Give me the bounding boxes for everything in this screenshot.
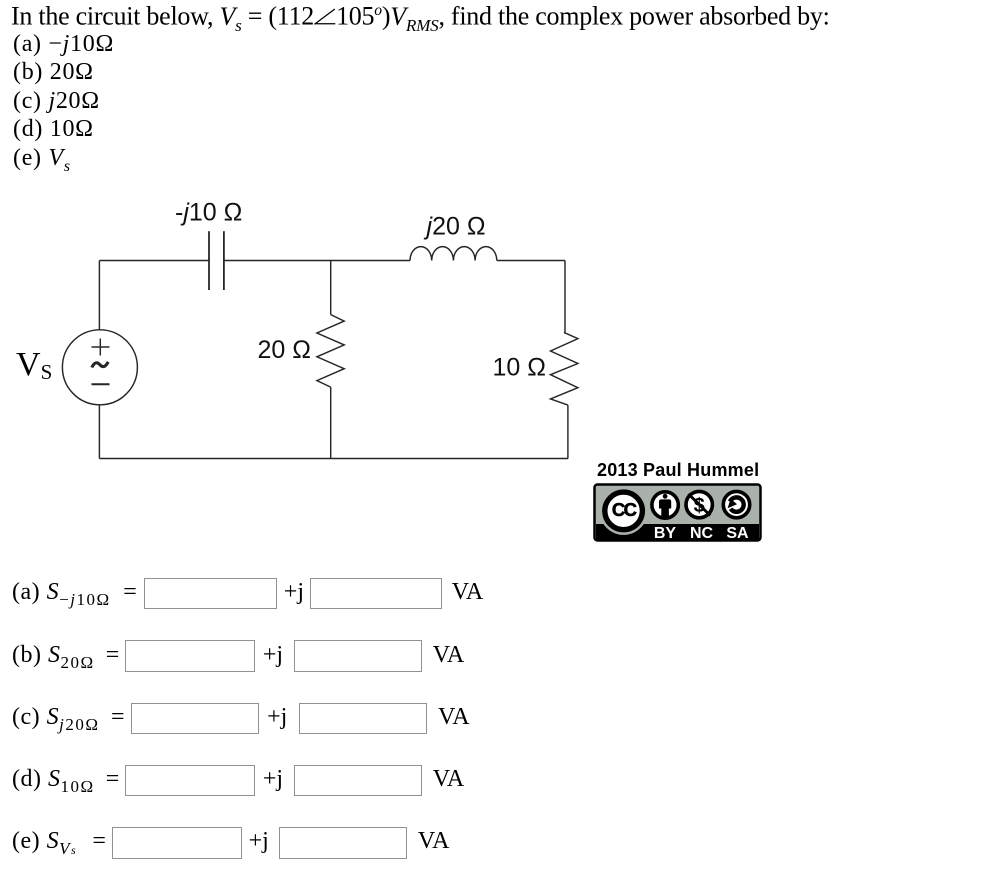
svg-text:20 Ω: 20 Ω bbox=[258, 336, 311, 364]
svg-text:VS: VS bbox=[16, 346, 52, 384]
svg-text:10 Ω: 10 Ω bbox=[493, 354, 546, 382]
wire inductor to top-right corner bbox=[497, 260, 565, 262]
wire left branch lower bbox=[98, 405, 100, 459]
wire left branch upper bbox=[98, 261, 100, 330]
svg-text:BY: BY bbox=[654, 525, 677, 542]
wire right branch upper bbox=[564, 261, 566, 333]
resistor 20Ohm bbox=[317, 315, 344, 388]
svg-text:-j10 Ω: -j10 Ω bbox=[175, 199, 242, 227]
answer row (c) bbox=[12, 705, 100, 733]
svg-text:j20 Ω: j20 Ω bbox=[424, 213, 486, 241]
inductor j20Ohm bbox=[410, 247, 497, 261]
badge background bbox=[595, 485, 761, 541]
copyright text bbox=[597, 461, 759, 479]
wire middle branch upper bbox=[330, 261, 332, 315]
resistor 10Ohm bbox=[551, 332, 578, 405]
options list bbox=[13, 30, 114, 181]
answer row (b) bbox=[12, 643, 95, 671]
answer row (a) bbox=[12, 580, 111, 608]
capacitor -j10Ohm plates bbox=[209, 231, 224, 290]
CC logo circle bbox=[600, 487, 648, 535]
SA icon bbox=[723, 491, 749, 517]
answer row (e) bbox=[12, 829, 76, 857]
wire middle branch lower bbox=[330, 387, 332, 458]
CC license badge bbox=[591, 481, 764, 544]
voltage source Vs bbox=[62, 330, 137, 405]
wire bottom bbox=[99, 458, 568, 460]
problem statement line bbox=[11, 3, 830, 34]
BY icon bbox=[652, 492, 678, 518]
answer row (d) bbox=[12, 767, 95, 795]
svg-text:CC: CC bbox=[612, 499, 637, 520]
wire top-left from node A to capacitor bbox=[99, 260, 209, 262]
svg-text:NC: NC bbox=[690, 525, 714, 542]
NC icon bbox=[686, 491, 712, 517]
svg-text:SA: SA bbox=[726, 525, 749, 542]
circuit schematic bbox=[0, 190, 800, 490]
wire capacitor to inductor with node B junction bbox=[224, 260, 410, 262]
wire right branch lower bbox=[567, 405, 569, 458]
